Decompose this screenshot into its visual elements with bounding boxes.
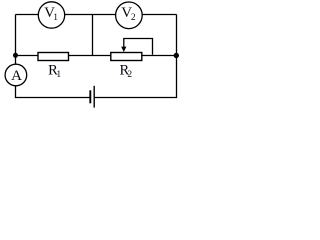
svg-text:2: 2 xyxy=(127,70,132,80)
svg-text:1: 1 xyxy=(53,13,58,23)
label R1 xyxy=(48,63,61,80)
wire mid vertical (top wire to middle wire between V1 and V2) xyxy=(92,15,94,56)
wire bottom left (to battery) xyxy=(15,97,90,99)
label R2 xyxy=(119,63,132,81)
rheostat R2 body xyxy=(111,53,142,61)
wire middle row (through R1 and R2) xyxy=(16,55,177,57)
wire bottom right (from battery) xyxy=(95,97,178,99)
voltmeter U1 (V1) xyxy=(38,2,64,28)
resistor R1 xyxy=(38,53,69,61)
wire right vertical xyxy=(176,15,178,98)
svg-text:2: 2 xyxy=(131,13,136,23)
wire top (left corner to right corner through V1 V2) xyxy=(16,14,177,16)
battery cell positive plate (long thin) xyxy=(93,86,95,108)
svg-text:1: 1 xyxy=(56,70,61,80)
junction node left (middle wire / left wire) xyxy=(13,53,18,58)
ammeter A xyxy=(5,64,27,86)
battery cell negative plate (short thick) xyxy=(89,90,91,103)
wire left vertical xyxy=(15,15,17,98)
junction node right (middle wire / right wire) xyxy=(174,53,179,58)
voltmeter U2 (V2) xyxy=(116,2,143,29)
rheostat R2 slider arrowhead xyxy=(121,47,126,52)
svg-text:A: A xyxy=(11,68,22,84)
rheostat R2 slider wire (up, right, down) xyxy=(124,39,153,55)
